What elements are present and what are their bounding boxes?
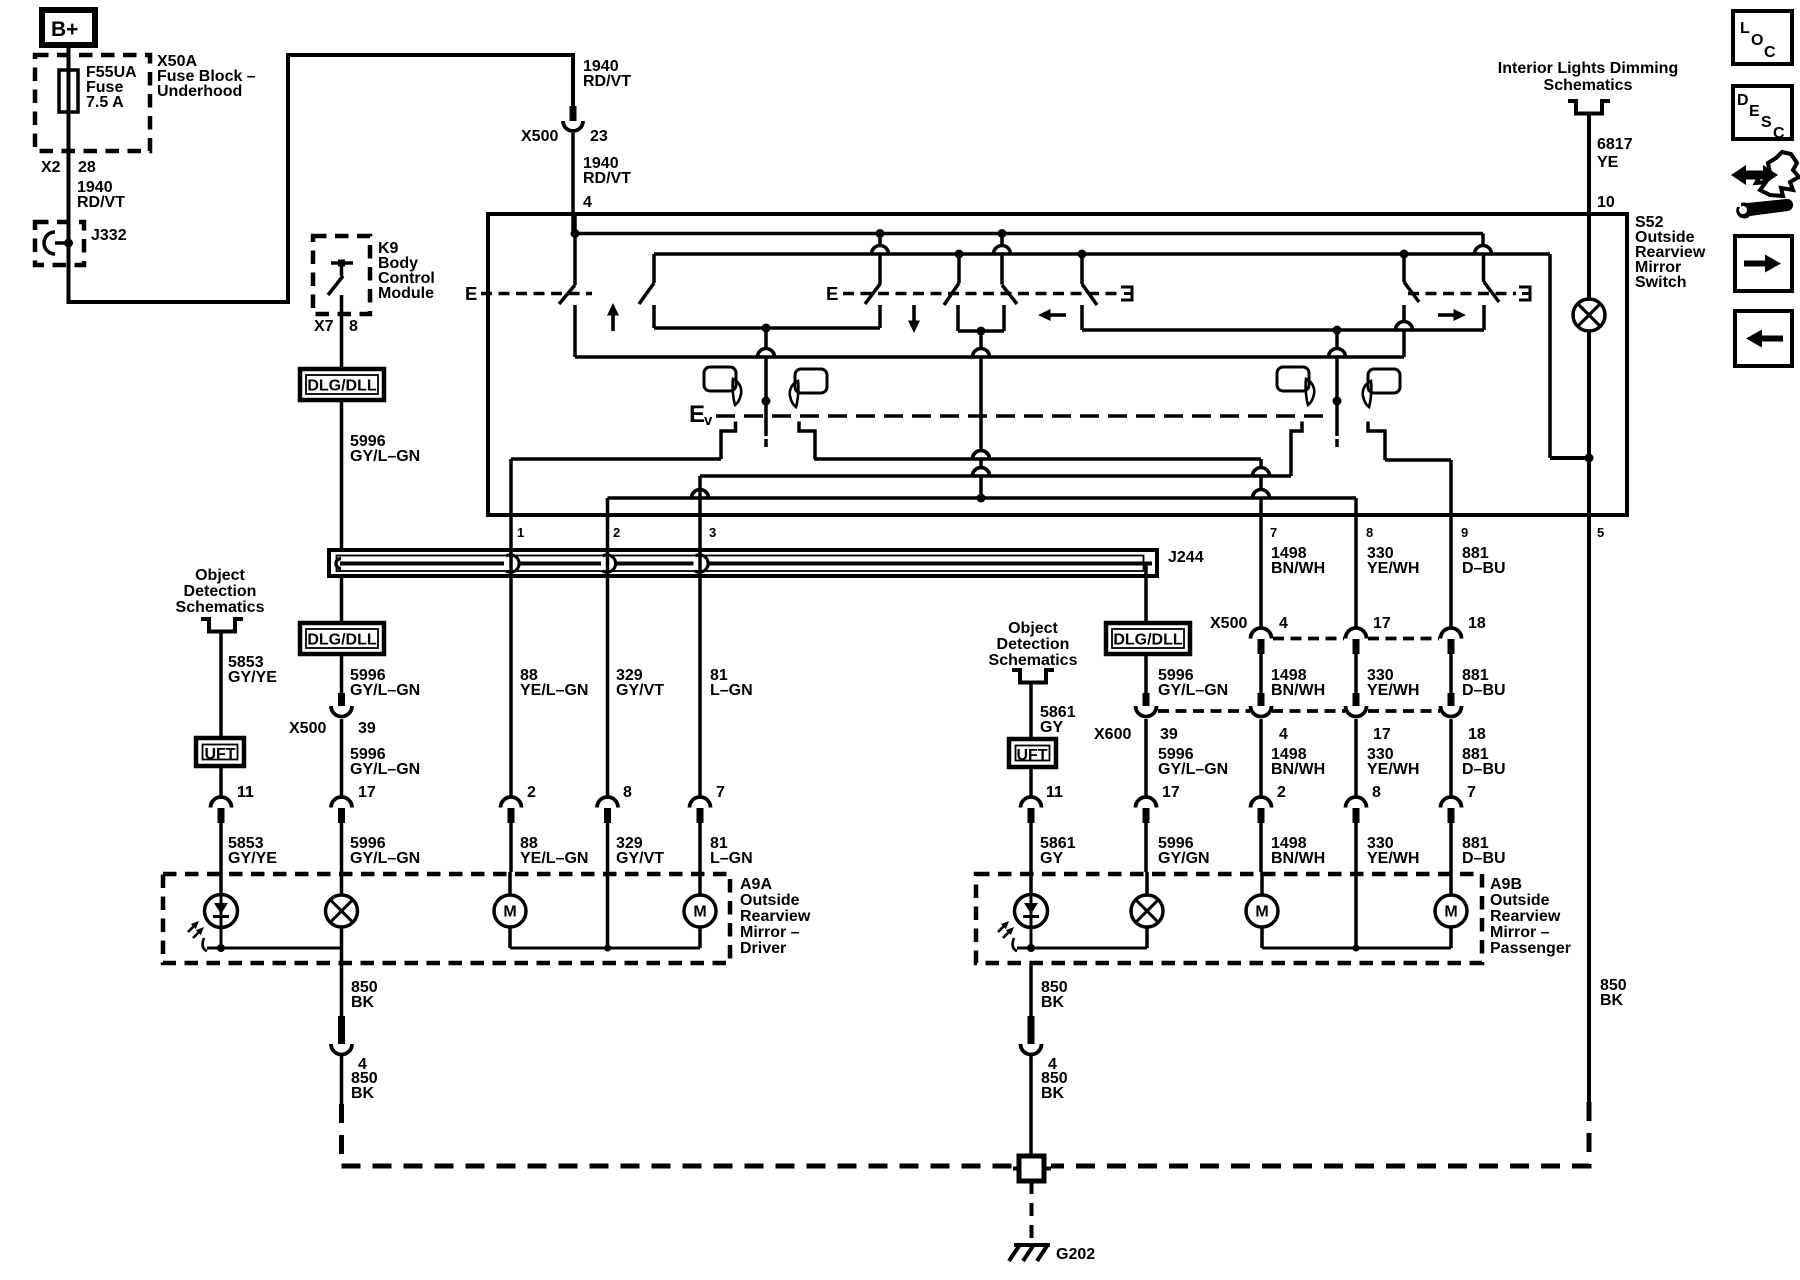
- svg-text:GY: GY: [1040, 719, 1063, 736]
- svg-text:L–GN: L–GN: [710, 850, 753, 867]
- svg-text:GY/L–GN: GY/L–GN: [350, 682, 420, 699]
- svg-text:YE/L–GN: YE/L–GN: [520, 850, 588, 867]
- svg-text:7.5 A: 7.5 A: [86, 94, 124, 111]
- svg-text:BK: BK: [1041, 994, 1065, 1011]
- svg-text:UFT: UFT: [204, 746, 235, 763]
- svg-text:GY/YE: GY/YE: [228, 669, 277, 686]
- svg-text:E: E: [1749, 103, 1760, 120]
- svg-text:9: 9: [1461, 525, 1468, 540]
- svg-text:BN/WH: BN/WH: [1271, 560, 1325, 577]
- svg-text:YE/WH: YE/WH: [1367, 850, 1419, 867]
- svg-text:Rearview: Rearview: [740, 908, 811, 925]
- svg-text:4: 4: [583, 194, 592, 211]
- svg-text:2: 2: [1277, 784, 1286, 801]
- svg-text:BK: BK: [1041, 1085, 1065, 1102]
- svg-text:BN/WH: BN/WH: [1271, 682, 1325, 699]
- svg-text:Detection: Detection: [997, 636, 1070, 653]
- svg-text:E: E: [465, 283, 477, 304]
- svg-text:17: 17: [1373, 726, 1391, 743]
- svg-text:2: 2: [527, 784, 536, 801]
- svg-text:C: C: [1773, 125, 1785, 142]
- svg-text:D: D: [1737, 92, 1749, 109]
- svg-text:DLG/DLL: DLG/DLL: [307, 378, 377, 395]
- svg-text:C: C: [1764, 44, 1776, 61]
- svg-text:Module: Module: [378, 285, 434, 302]
- svg-text:v: v: [704, 412, 713, 429]
- svg-text:X600: X600: [1094, 726, 1131, 743]
- svg-text:Object: Object: [195, 567, 245, 584]
- svg-text:7: 7: [1270, 525, 1277, 540]
- svg-text:L–GN: L–GN: [710, 682, 753, 699]
- svg-text:GY/L–GN: GY/L–GN: [350, 448, 420, 465]
- svg-text:Object: Object: [1008, 620, 1058, 637]
- svg-text:GY/VT: GY/VT: [616, 850, 664, 867]
- svg-text:18: 18: [1468, 726, 1486, 743]
- svg-text:G202: G202: [1056, 1246, 1095, 1263]
- svg-text:B+: B+: [51, 18, 78, 41]
- svg-text:A9A: A9A: [740, 876, 772, 893]
- svg-text:A9B: A9B: [1490, 876, 1522, 893]
- svg-text:M: M: [503, 904, 516, 921]
- svg-text:GY/L–GN: GY/L–GN: [1158, 682, 1228, 699]
- svg-text:39: 39: [1160, 726, 1178, 743]
- svg-text:YE/WH: YE/WH: [1367, 761, 1419, 778]
- svg-text:X500: X500: [521, 128, 558, 145]
- svg-text:Mirror –: Mirror –: [740, 924, 800, 941]
- svg-text:J332: J332: [91, 227, 127, 244]
- svg-text:7: 7: [716, 784, 725, 801]
- svg-text:18: 18: [1468, 615, 1486, 632]
- svg-text:GY/L–GN: GY/L–GN: [350, 850, 420, 867]
- svg-text:GY/GN: GY/GN: [1158, 850, 1210, 867]
- svg-text:RD/VT: RD/VT: [583, 170, 631, 187]
- svg-text:DLG/DLL: DLG/DLL: [307, 632, 377, 649]
- svg-text:E: E: [826, 283, 838, 304]
- svg-text:M: M: [1255, 904, 1268, 921]
- svg-text:X2: X2: [41, 159, 61, 176]
- svg-text:S: S: [1761, 114, 1772, 131]
- svg-text:17: 17: [1373, 615, 1391, 632]
- svg-text:Outside: Outside: [1490, 892, 1550, 909]
- svg-text:8: 8: [1366, 525, 1373, 540]
- svg-text:GY/YE: GY/YE: [228, 850, 277, 867]
- svg-text:11: 11: [237, 784, 254, 801]
- svg-text:D–BU: D–BU: [1462, 850, 1506, 867]
- svg-text:YE/WH: YE/WH: [1367, 560, 1419, 577]
- svg-text:Schematics: Schematics: [176, 599, 265, 616]
- svg-text:Schematics: Schematics: [989, 652, 1078, 669]
- svg-text:Rearview: Rearview: [1490, 908, 1561, 925]
- svg-text:BN/WH: BN/WH: [1271, 850, 1325, 867]
- svg-text:39: 39: [358, 720, 376, 737]
- svg-text:17: 17: [358, 784, 376, 801]
- svg-text:BN/WH: BN/WH: [1271, 761, 1325, 778]
- svg-text:D–BU: D–BU: [1462, 682, 1506, 699]
- svg-text:UFT: UFT: [1016, 747, 1047, 764]
- svg-text:BK: BK: [351, 994, 375, 1011]
- svg-text:M: M: [1444, 904, 1457, 921]
- svg-text:11: 11: [1046, 784, 1063, 801]
- svg-text:YE/WH: YE/WH: [1367, 682, 1419, 699]
- svg-text:RD/VT: RD/VT: [77, 194, 125, 211]
- svg-text:O: O: [1751, 32, 1763, 49]
- svg-text:GY/VT: GY/VT: [616, 682, 664, 699]
- svg-text:J244: J244: [1168, 549, 1204, 566]
- svg-text:D–BU: D–BU: [1462, 560, 1506, 577]
- svg-text:4: 4: [1279, 615, 1288, 632]
- svg-text:6817: 6817: [1597, 136, 1633, 153]
- svg-text:M: M: [693, 904, 706, 921]
- svg-text:YE/L–GN: YE/L–GN: [520, 682, 588, 699]
- svg-text:28: 28: [78, 159, 96, 176]
- svg-text:10: 10: [1597, 194, 1615, 211]
- svg-text:5: 5: [1597, 525, 1604, 540]
- svg-text:8: 8: [349, 318, 358, 335]
- svg-text:17: 17: [1162, 784, 1180, 801]
- svg-text:7: 7: [1467, 784, 1476, 801]
- svg-text:Interior Lights Dimming: Interior Lights Dimming: [1498, 60, 1678, 77]
- svg-text:3: 3: [709, 525, 716, 540]
- svg-text:X7: X7: [314, 318, 334, 335]
- svg-text:GY: GY: [1040, 850, 1063, 867]
- svg-text:1: 1: [517, 525, 524, 540]
- svg-text:23: 23: [590, 128, 608, 145]
- svg-text:Mirror –: Mirror –: [1490, 924, 1550, 941]
- svg-text:Switch: Switch: [1635, 274, 1687, 291]
- svg-text:YE: YE: [1597, 154, 1619, 171]
- svg-text:8: 8: [1372, 784, 1381, 801]
- svg-text:Passenger: Passenger: [1490, 940, 1571, 957]
- svg-text:E: E: [689, 401, 705, 428]
- svg-text:Detection: Detection: [184, 583, 257, 600]
- svg-text:DLG/DLL: DLG/DLL: [1113, 632, 1183, 649]
- svg-text:GY/L–GN: GY/L–GN: [1158, 761, 1228, 778]
- svg-text:8: 8: [623, 784, 632, 801]
- svg-text:Outside: Outside: [740, 892, 800, 909]
- svg-text:D–BU: D–BU: [1462, 761, 1506, 778]
- svg-text:X500: X500: [1210, 615, 1247, 632]
- svg-text:GY/L–GN: GY/L–GN: [350, 761, 420, 778]
- svg-text:X500: X500: [289, 720, 326, 737]
- svg-text:Driver: Driver: [740, 940, 786, 957]
- svg-text:RD/VT: RD/VT: [583, 73, 631, 90]
- svg-text:L: L: [1740, 20, 1750, 37]
- svg-text:Underhood: Underhood: [157, 83, 242, 100]
- svg-text:Schematics: Schematics: [1544, 77, 1633, 94]
- svg-text:BK: BK: [1600, 992, 1624, 1009]
- svg-text:4: 4: [1279, 726, 1288, 743]
- svg-text:2: 2: [613, 525, 620, 540]
- svg-text:BK: BK: [351, 1085, 375, 1102]
